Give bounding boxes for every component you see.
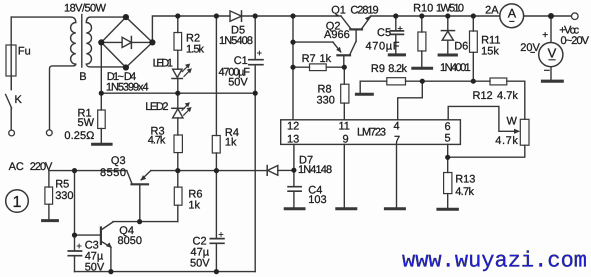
20V underline <box>530 51 535 53</box>
wire +V vertical to pin 12 <box>292 16 294 120</box>
svg-text:5W: 5W <box>78 117 95 129</box>
bridge rectifier D1~D4 diamond <box>101 17 152 67</box>
terminal AC left <box>9 130 15 136</box>
wire control row y170 <box>49 170 127 172</box>
svg-text:LED2: LED2 <box>145 101 168 113</box>
ground pin 9 <box>337 207 356 210</box>
terminal AC right <box>46 130 52 136</box>
svg-text:+: + <box>542 30 548 41</box>
fuse Fu <box>10 17 12 89</box>
resistor R12 <box>490 78 507 85</box>
LED2 <box>177 93 179 108</box>
svg-text:0~20V: 0~20V <box>561 35 590 47</box>
resistor R3 <box>174 135 182 153</box>
svg-text:+: + <box>77 241 82 251</box>
LED1 <box>173 69 182 77</box>
ground R13 <box>438 208 458 211</box>
meter underlines <box>509 21 555 59</box>
svg-text:1k: 1k <box>225 137 237 149</box>
svg-text:9: 9 <box>343 134 349 146</box>
wire pin 4 jog <box>398 81 423 120</box>
svg-text:4.7k: 4.7k <box>497 90 518 102</box>
figure label circle 1 <box>6 190 29 213</box>
svg-text:4.7k: 4.7k <box>148 134 166 146</box>
svg-text:11: 11 <box>339 121 350 133</box>
svg-text:C2819: C2819 <box>350 5 378 17</box>
ammeter A underline <box>509 20 514 22</box>
node dots <box>72 13 554 274</box>
svg-text:1N5408: 1N5408 <box>219 35 253 47</box>
resistor R9 <box>360 80 422 82</box>
wire pin 7 <box>396 144 398 207</box>
bridge inner diode <box>101 41 152 43</box>
svg-text:4.7k: 4.7k <box>495 135 518 147</box>
transistor Q3 8550 <box>127 171 132 184</box>
resistor R6 <box>177 171 179 222</box>
svg-text:330: 330 <box>55 190 73 202</box>
svg-text:D6: D6 <box>454 41 468 53</box>
wire top rail middle <box>242 15 342 17</box>
wire pin 13 <box>293 144 295 170</box>
wire top-left <box>11 16 69 18</box>
svg-text:4: 4 <box>394 121 400 133</box>
voltmeter V underline <box>549 59 556 61</box>
capacitor C4 <box>293 170 295 207</box>
transistor Q1 C2819 <box>341 16 351 29</box>
wire negative bus y93 <box>101 92 255 94</box>
ammeter A circle <box>500 4 524 28</box>
svg-text:103: 103 <box>308 194 326 206</box>
LED2 arrows <box>182 106 188 115</box>
capacitor C5 <box>395 16 397 54</box>
resistor R13 <box>447 157 449 207</box>
voltmeter V circle <box>539 43 563 67</box>
wire pin 6 to wiper <box>448 106 515 131</box>
svg-text:C5: C5 <box>377 27 391 39</box>
resistor R10 <box>421 16 423 67</box>
svg-text:1N4148: 1N4148 <box>298 164 332 176</box>
svg-text:1k: 1k <box>320 53 332 65</box>
svg-text:Q3: Q3 <box>111 155 126 167</box>
svg-text:Q1: Q1 <box>331 5 346 17</box>
svg-text:R7: R7 <box>302 53 316 65</box>
svg-text:50V: 50V <box>85 262 105 274</box>
wire AC live lead <box>10 108 12 130</box>
capacitor C2 <box>215 171 217 272</box>
transistor Q4 8050 <box>100 228 102 245</box>
transformer B secondary winding <box>86 17 126 67</box>
svg-text:8550: 8550 <box>100 167 126 179</box>
svg-text:6: 6 <box>445 121 451 133</box>
svg-text:K: K <box>15 94 23 106</box>
capacitor C3 <box>68 251 81 256</box>
svg-text:4.7k: 4.7k <box>455 186 474 198</box>
ground C5 <box>389 53 404 56</box>
svg-text:0.25Ω: 0.25Ω <box>64 130 94 142</box>
resistor R5 <box>48 171 50 219</box>
svg-text:R12: R12 <box>473 90 493 102</box>
resistor R8 <box>343 67 345 120</box>
svg-text:+: + <box>398 24 403 34</box>
ground pin 7 <box>385 207 404 210</box>
svg-text:220V: 220V <box>30 161 53 173</box>
ground D6 <box>439 54 456 57</box>
IC LM723 box <box>281 120 461 145</box>
svg-text:13: 13 <box>287 134 299 146</box>
transistor Q2 A966 <box>293 41 333 43</box>
svg-text:8.2k: 8.2k <box>388 63 407 75</box>
potentiometer W wiper arrow <box>514 129 520 134</box>
ground voltmeter <box>543 80 563 83</box>
svg-text:50V: 50V <box>190 258 210 270</box>
svg-text:R13: R13 <box>455 174 475 186</box>
svg-text:8050: 8050 <box>118 235 142 247</box>
output terminal +Vcc <box>572 13 579 20</box>
diode D5 <box>230 11 242 21</box>
wire LED junction column x74 <box>74 171 76 251</box>
LED1 arrows <box>182 67 188 76</box>
svg-text:LM723: LM723 <box>357 127 386 139</box>
transformer B primary winding <box>50 17 76 130</box>
svg-text:5: 5 <box>445 133 451 145</box>
diode D7 <box>216 169 294 171</box>
resistor R2 <box>177 16 179 69</box>
wire top rail right <box>371 15 501 17</box>
svg-text:1N4001: 1N4001 <box>440 62 471 74</box>
resistor R7 <box>293 66 344 68</box>
svg-text:+: + <box>218 229 223 239</box>
svg-text:R10: R10 <box>413 3 433 15</box>
svg-text:12: 12 <box>287 121 299 133</box>
svg-text:V: V <box>548 46 557 61</box>
svg-text:1N5399x4: 1N5399x4 <box>106 82 149 94</box>
svg-text:+: + <box>257 48 262 58</box>
svg-text:470µF: 470µF <box>366 40 400 52</box>
ground R5 <box>43 219 58 222</box>
potentiometer W body <box>520 119 529 145</box>
svg-text:330: 330 <box>317 95 335 107</box>
svg-text:A966: A966 <box>324 29 350 41</box>
svg-text:18V/50W: 18V/50W <box>64 3 107 15</box>
svg-text:A: A <box>508 7 517 21</box>
switch K <box>6 76 12 108</box>
transformer core <box>81 15 83 68</box>
capacitor C1 <box>254 16 256 93</box>
svg-text:−: − <box>544 65 550 77</box>
wire Q3 base row y221 <box>113 221 178 223</box>
svg-text:1: 1 <box>13 194 22 211</box>
svg-text:15k: 15k <box>481 46 499 58</box>
voltmeter V wire <box>550 16 552 80</box>
wire bridge minus to R1 <box>100 42 102 110</box>
ground R1 <box>93 143 112 146</box>
svg-text:1W510: 1W510 <box>436 3 464 15</box>
ground C4 <box>285 207 304 210</box>
ground R9 <box>356 93 372 96</box>
resistor R4 column <box>215 16 217 171</box>
wire bottom rail <box>75 271 256 273</box>
ground R10 <box>413 67 432 70</box>
svg-text:1.5k: 1.5k <box>186 43 205 55</box>
svg-text:7: 7 <box>394 135 400 147</box>
svg-text:C1: C1 <box>234 55 248 67</box>
wire pin 9 <box>343 144 345 207</box>
wire C1 bottom to rail <box>254 93 256 271</box>
svg-text:2A: 2A <box>485 5 499 17</box>
wire R9 node to R12 <box>422 80 490 82</box>
IC LM723 pin labels <box>287 121 451 147</box>
svg-text:W: W <box>507 116 518 128</box>
resistor R11 <box>472 16 474 81</box>
svg-text:Fu: Fu <box>18 46 31 58</box>
svg-text:1k: 1k <box>188 200 200 212</box>
svg-text:AC: AC <box>9 161 24 173</box>
svg-text:www.wuyazi.com: www.wuyazi.com <box>402 249 587 274</box>
resistor R1 <box>98 110 106 129</box>
svg-text:R5: R5 <box>55 179 69 191</box>
wire bridge plus riser <box>152 16 230 42</box>
svg-text:50V: 50V <box>228 77 248 89</box>
wire pot bottom to pin 5 <box>448 145 525 157</box>
svg-text:R9: R9 <box>371 63 385 75</box>
svg-text:B: B <box>79 71 86 83</box>
diode D6 <box>447 16 449 54</box>
svg-text:LED1: LED1 <box>153 58 173 70</box>
